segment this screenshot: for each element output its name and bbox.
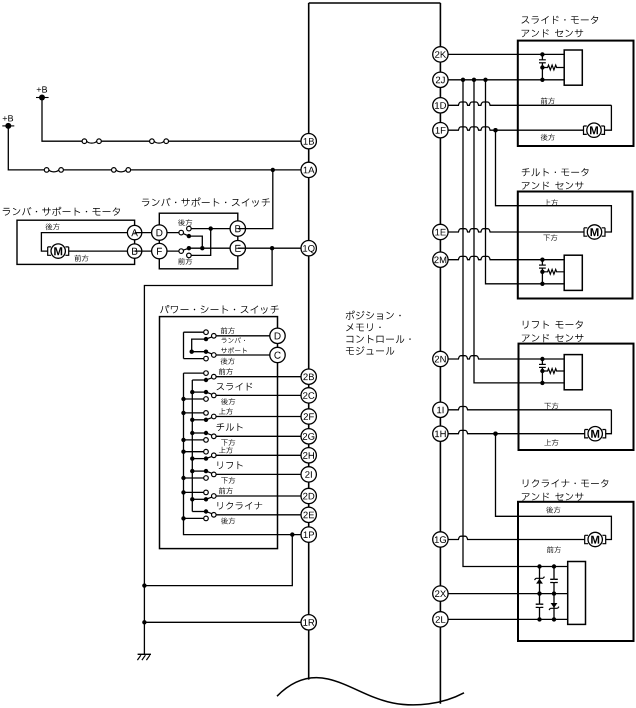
terminal 2E bbox=[301, 507, 316, 522]
label: front (slide sw) bbox=[219, 368, 233, 375]
wire: A to D bbox=[135, 232, 160, 234]
wire: F to pivot 2 bbox=[159, 250, 179, 252]
module: position-memory control module left edge bbox=[308, 3, 310, 680]
module: position-memory control module top edge bbox=[309, 2, 441, 4]
motor M2 (slide) bbox=[584, 126, 587, 134]
junction: ground rail / 1P riser bbox=[142, 583, 146, 587]
switch S1b pivot (lumbar front) bbox=[179, 249, 184, 254]
wire: motor terminal A internal (rear) bbox=[41, 233, 134, 252]
terminal 1G bbox=[433, 532, 448, 547]
terminal B (lumbar motor) bbox=[127, 244, 141, 258]
terminal 2X bbox=[433, 586, 448, 601]
wire: D to pivot 1 bbox=[159, 232, 179, 234]
junction: inner bus tap (2D) bbox=[190, 497, 194, 501]
junction: 2J tap A bbox=[461, 78, 465, 82]
label: front (seat sw lumbar) bbox=[221, 327, 235, 334]
label: and sensor (slide) bbox=[522, 29, 584, 37]
terminal 1F bbox=[433, 123, 448, 138]
switch fixed contact (2H) bbox=[204, 449, 209, 454]
junction: outer bus tap (2H) bbox=[181, 450, 185, 454]
label: down (tilt sw) bbox=[221, 439, 235, 446]
wire: arm stub (2I) bbox=[192, 470, 206, 472]
motor M5 (recliner) bbox=[585, 535, 588, 543]
label: rear (recliner box) bbox=[546, 506, 560, 513]
junction: inner bus tap (2H) bbox=[190, 456, 194, 460]
wire: rear contact to terminal B(switch) bbox=[191, 228, 238, 230]
terminal 2L bbox=[433, 612, 448, 627]
wire: sensor bus line A (2J to recliner sensor) bbox=[463, 80, 568, 567]
wire: 2C row to terminal bbox=[216, 394, 309, 396]
terminal 1D bbox=[433, 98, 448, 113]
switch fixed contact (C rear) bbox=[204, 356, 209, 361]
label: rear (lumbar switch) bbox=[178, 219, 192, 226]
ground symbol bbox=[138, 653, 151, 655]
wire: 1E to tilt motor (down) bbox=[440, 229, 584, 232]
slide position sensor bbox=[541, 54, 543, 59]
junction: 1F tap dot bbox=[493, 128, 497, 132]
lumbar support switch box bbox=[159, 213, 238, 269]
switch pivot (2E) bbox=[212, 513, 217, 518]
diode D2 (zener, down, col B) bbox=[551, 603, 558, 608]
junction: ground rail / 1R row bbox=[142, 620, 146, 624]
switch arm (2G) bbox=[206, 433, 212, 435]
wire: 2J to slide sensor bottom bbox=[440, 79, 564, 81]
recliner sensor element bbox=[568, 562, 586, 625]
wire: tilt-up feed (1F tap down into tilt box) bbox=[496, 130, 612, 232]
label: front (lumbar switch) bbox=[178, 258, 192, 265]
terminal 1I bbox=[433, 402, 448, 417]
terminal 2J bbox=[433, 72, 448, 87]
wire: B to F bbox=[135, 250, 160, 252]
switch arm (2F) bbox=[206, 418, 212, 420]
motor M3 (tilt) bbox=[584, 228, 587, 236]
terminal C (seat switch) bbox=[270, 347, 285, 362]
label: up (lift sw) bbox=[219, 447, 233, 454]
wire: 1P riser down to ground rail bbox=[144, 535, 292, 586]
lift motor and sensor box bbox=[519, 344, 634, 450]
switch S1a arm bbox=[183, 234, 189, 237]
wire: contact stub (2H) bbox=[184, 451, 204, 453]
wire: contact stub (2I) bbox=[184, 477, 204, 479]
wire: contact stub (2D) bbox=[184, 491, 204, 493]
terminal 2C bbox=[301, 388, 316, 403]
switch pivot (2B) bbox=[212, 374, 217, 379]
junction: switch-B feed on 1A line bbox=[271, 168, 275, 172]
switch fixed contact (2F) bbox=[204, 411, 209, 416]
terminal 2F bbox=[301, 409, 316, 424]
wire: outer contact bus + 1P feed bbox=[184, 373, 309, 534]
terminal A (lumbar motor) bbox=[127, 225, 141, 239]
terminal F (lumbar switch) bbox=[152, 243, 167, 258]
wire: arm stub (2F) bbox=[192, 419, 206, 421]
terminal 1H bbox=[433, 426, 448, 441]
junction: lumbar arm jog corner bbox=[190, 350, 194, 354]
terminal 1A bbox=[301, 162, 316, 177]
wire: contact stub (2F) bbox=[184, 412, 204, 414]
fuse F3 (1A feed, left) bbox=[49, 170, 59, 172]
junction: B-row / front-contact riser bbox=[209, 226, 213, 230]
switch arm (2I) bbox=[206, 471, 212, 473]
switch S1a pivot (lumbar rear) bbox=[179, 230, 184, 235]
wire: 2H row to terminal bbox=[216, 454, 309, 456]
switch fixed contact (2B) bbox=[204, 371, 209, 376]
junction: outer bus tap (2E) bbox=[181, 516, 185, 520]
label: tilt motor (line1) bbox=[522, 168, 589, 176]
terminal 2B bbox=[301, 369, 316, 384]
terminal 2N bbox=[433, 351, 448, 366]
wire: 1G to recliner motor (front) bbox=[440, 536, 585, 539]
switch arm (2E) bbox=[206, 512, 212, 514]
junction: 2J tap C bbox=[483, 78, 487, 82]
junction: 2J tap B bbox=[472, 78, 476, 82]
terminal 2I bbox=[301, 467, 316, 482]
terminal D (lumbar switch) bbox=[152, 225, 167, 240]
wire: lumbar arm jog bbox=[192, 339, 206, 352]
wire: sensor bus line B (2J to lift sensor) bbox=[474, 80, 564, 383]
module label: position memory control module (4 lines) bbox=[346, 311, 401, 320]
switch fixed contact (D front) bbox=[204, 330, 209, 335]
junction: inner bus tap (2G) bbox=[190, 431, 194, 435]
label: slide bbox=[217, 383, 253, 391]
wire: 2D row to terminal bbox=[216, 495, 309, 497]
junction: outer bus tap (2G) bbox=[181, 438, 185, 442]
terminal 1Q bbox=[301, 241, 316, 256]
module label line 3: control bbox=[346, 335, 410, 343]
terminal 1E bbox=[433, 224, 448, 239]
wire: 1F to slide motor (rear) bbox=[440, 127, 583, 130]
terminal 2K bbox=[433, 47, 448, 62]
terminal E (lumbar switch) bbox=[230, 241, 245, 256]
wire: ground rail (E tap down, left, down to earth) bbox=[144, 248, 272, 654]
switch pivot (lumbar-fwd D) bbox=[212, 334, 217, 339]
label: slide motor (line1) bbox=[522, 16, 599, 24]
label: and sensor (recliner) bbox=[522, 493, 584, 501]
lumbar support motor box bbox=[17, 220, 135, 264]
diode D1 (zener, up, col A) bbox=[539, 567, 541, 594]
wire: contact stub (2C) bbox=[184, 398, 204, 400]
junction dots recliner sensor bbox=[537, 564, 541, 568]
wire: 1I to lift motor (down) bbox=[440, 407, 611, 410]
wire: arm stub (2C) bbox=[192, 391, 206, 393]
terminal 1B bbox=[301, 134, 316, 149]
wire: 2M to tilt sensor top bbox=[440, 256, 564, 259]
label: recliner bbox=[218, 502, 263, 510]
battery +B node 2 (left) bbox=[3, 115, 13, 121]
wire: 2L to recliner sensor bottom row bbox=[440, 618, 567, 620]
label: rear (slide box) bbox=[541, 134, 555, 141]
label: lumbar support switch bbox=[142, 198, 270, 207]
module label line 2: memory bbox=[346, 323, 381, 331]
junction: outer bus tap (2D) bbox=[181, 490, 185, 494]
wire: 2K to slide sensor top bbox=[440, 53, 564, 55]
label: up (lift box) bbox=[544, 439, 558, 446]
junction: jog onto E row bbox=[200, 246, 204, 250]
wire: C row bbox=[216, 354, 277, 356]
motor M1 (lumbar support) bbox=[48, 247, 51, 255]
wire: col A lower segment bbox=[539, 594, 541, 604]
switch arm (D) bbox=[206, 337, 212, 339]
wire: lumbar contact bracket bbox=[183, 332, 185, 358]
wire: contact stub (2B) bbox=[184, 372, 204, 374]
label: rear (recliner sw) bbox=[221, 517, 235, 524]
module: bottom break wavy line bbox=[277, 678, 464, 705]
terminal 1P bbox=[301, 527, 316, 542]
wire: contact stub (2E) bbox=[184, 517, 204, 519]
slide motor and sensor box bbox=[518, 41, 634, 146]
switch arm (2D) bbox=[206, 497, 212, 499]
junction: inner bus tap (2C) bbox=[190, 390, 194, 394]
wire: +B1 down and right to terminal 1B bbox=[42, 98, 309, 142]
capacitor C1 (col A) bbox=[536, 604, 544, 607]
switch S1b fixed contact (front) bbox=[187, 253, 192, 258]
wire: 1D to slide motor (front) bbox=[440, 102, 611, 105]
wire: 2X to recliner sensor mid row bbox=[440, 593, 567, 595]
switch fixed contact (2I) bbox=[204, 476, 209, 481]
wire: 2E row to terminal bbox=[216, 514, 309, 516]
wire: +B2 down and right to terminal 1A bbox=[8, 126, 308, 170]
wire: sensor bus line C (2J to tilt sensor) bbox=[486, 80, 565, 284]
label: power seat switch bbox=[160, 305, 279, 314]
switch fixed contact (2C) bbox=[204, 397, 209, 402]
switch pivot (2D) bbox=[212, 494, 217, 499]
label: front (recliner box) bbox=[547, 546, 561, 553]
module label line 4: module bbox=[346, 346, 394, 355]
terminal 1R bbox=[301, 615, 316, 630]
switch pivot (2H) bbox=[212, 453, 217, 458]
switch arm (2C) bbox=[206, 392, 212, 394]
label: and sensor (lift) bbox=[522, 334, 584, 342]
junction: outer bus tap (2F) bbox=[181, 411, 185, 415]
switch fixed contact (2E) bbox=[204, 516, 209, 521]
terminal B (lumbar switch) bbox=[230, 221, 245, 236]
label: lumbar support motor bbox=[3, 207, 120, 216]
motor M4 (lift) bbox=[585, 430, 588, 438]
wire: C contact stub bbox=[184, 358, 204, 360]
label: recliner motor (line1) bbox=[523, 479, 609, 487]
lift sensor element bbox=[564, 355, 582, 390]
switch S1a fixed contact (rear) bbox=[187, 226, 192, 231]
wire: E row to terminal E bbox=[189, 247, 238, 249]
switch arm (C) bbox=[206, 352, 212, 354]
label: tilt bbox=[217, 423, 243, 431]
wire: front contact riser to B row bbox=[191, 229, 211, 256]
junction: 1H tap dot bbox=[493, 432, 497, 436]
switch fixed contact (2G) bbox=[204, 438, 209, 443]
wire: D row bbox=[216, 335, 277, 337]
label: support (2-line) bbox=[221, 347, 247, 353]
terminal 2G bbox=[301, 429, 316, 444]
wire: D contact stub bbox=[184, 331, 204, 333]
label: front (slide box) bbox=[541, 98, 555, 105]
tilt sensor element bbox=[564, 255, 582, 290]
wire: 2B row to terminal bbox=[216, 376, 309, 378]
battery +B node 1 (top) bbox=[37, 86, 47, 92]
fuse F1 (1B feed, left) bbox=[87, 141, 97, 143]
wire: motor right side to terminal B bbox=[69, 250, 135, 252]
label: rear (lumbar motor) bbox=[46, 223, 60, 230]
slide sensor element bbox=[564, 50, 582, 85]
wire: inner arm bus bbox=[191, 380, 193, 512]
junction: outer bus tap (2C) bbox=[181, 397, 185, 401]
label: front (recliner sw) bbox=[219, 487, 233, 494]
label: lift bbox=[218, 461, 243, 469]
capacitor C2 (col B) bbox=[553, 567, 555, 620]
lift position sensor bbox=[541, 359, 543, 364]
wire: arm stub (2E) bbox=[192, 511, 206, 513]
junction: 1P ground-riser tap bbox=[290, 532, 294, 536]
wire: recliner-rear feed (1H tap down into recliner box) bbox=[496, 434, 612, 540]
wire: 2I row to terminal bbox=[216, 473, 309, 475]
fuse F4 (1A feed, right) bbox=[116, 170, 126, 172]
wire: 2N to lift sensor top bbox=[440, 356, 564, 359]
junction: outer bus tap (2I) bbox=[181, 476, 185, 480]
junction: 1F tap bbox=[493, 128, 497, 132]
terminal 2H bbox=[301, 448, 316, 463]
label: lift motor (line1) bbox=[523, 321, 583, 329]
switch pivot (2F) bbox=[212, 414, 217, 419]
wire: arm stub (2H) bbox=[192, 458, 206, 460]
label: and sensor (tilt) bbox=[522, 182, 584, 190]
terminal D (seat switch) bbox=[270, 328, 285, 343]
label: up (tilt box) bbox=[544, 199, 558, 206]
wire: 1H to lift motor (up) bbox=[440, 430, 584, 433]
junction: inner bus tap (2F) bbox=[190, 418, 194, 422]
junction: 1H tap bbox=[493, 432, 497, 436]
wire: arm stub (2D) bbox=[192, 498, 206, 500]
wire: S1a arm jog down to E row bbox=[189, 236, 202, 248]
label: down (tilt box) bbox=[543, 234, 557, 241]
wire: arm stub (2B) bbox=[192, 379, 206, 381]
junction: inner bus tap (2I) bbox=[190, 469, 194, 473]
wire: 2G row to terminal bbox=[216, 435, 309, 437]
power seat switch box bbox=[160, 317, 278, 549]
switch S1b arm bbox=[183, 248, 189, 250]
wire: E to module 1Q bbox=[238, 247, 309, 249]
switch pivot (lumbar-rear C) bbox=[212, 353, 217, 358]
switch arm (2B) bbox=[206, 378, 212, 380]
switch pivot (2C) bbox=[212, 393, 217, 398]
wire: arm stub (2G) bbox=[192, 432, 206, 434]
label: rear (slide sw) bbox=[221, 398, 235, 405]
junction: E/1Q ground tap bbox=[270, 246, 274, 250]
label: down (lift box) bbox=[544, 403, 558, 410]
wire: 2F row to terminal bbox=[216, 416, 309, 418]
label: front (lumbar motor) bbox=[75, 255, 89, 262]
terminal 2D bbox=[301, 488, 316, 503]
switch pivot (2I) bbox=[212, 472, 217, 477]
switch pivot (2G) bbox=[212, 434, 217, 439]
module: position-memory control module right edge bbox=[439, 3, 441, 704]
terminal 2M bbox=[433, 252, 448, 267]
switch arm (2H) bbox=[206, 456, 212, 458]
switch fixed contact (2D) bbox=[204, 490, 209, 495]
tilt position sensor bbox=[541, 260, 543, 265]
label: lumbar- (2-line) bbox=[222, 337, 246, 343]
label: down (lift sw) bbox=[221, 477, 235, 484]
wire: contact stub (2G) bbox=[184, 439, 204, 441]
recliner motor and sensor box bbox=[518, 502, 634, 641]
label: rear (seat sw lumbar) bbox=[221, 358, 235, 365]
label: up (tilt sw) bbox=[219, 408, 233, 415]
wire: switch B up to 1A feed bbox=[238, 170, 273, 229]
fuse F2 (1B feed, right) bbox=[154, 141, 164, 143]
tilt motor and sensor box bbox=[518, 192, 633, 299]
wire: col A cap gap mask bbox=[539, 605, 541, 607]
wire: 1R row bbox=[144, 621, 308, 623]
